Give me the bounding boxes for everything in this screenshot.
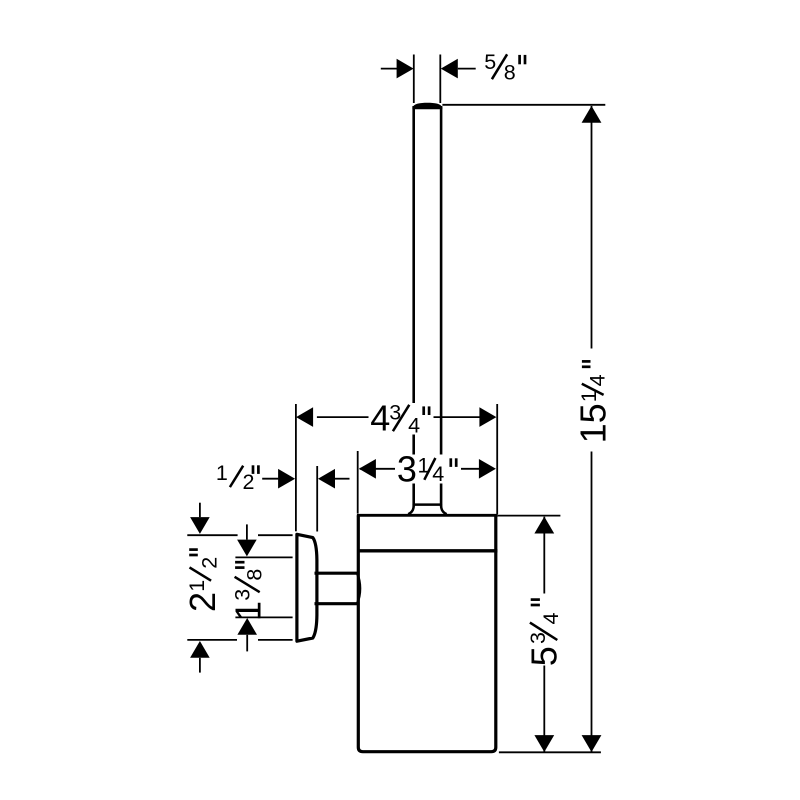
svg-text:5: 5 (484, 50, 496, 74)
svg-text:4: 4 (586, 374, 610, 386)
svg-text:5: 5 (523, 646, 564, 666)
svg-text:1: 1 (216, 461, 228, 485)
svg-text:1: 1 (573, 423, 614, 443)
svg-text:1: 1 (185, 580, 209, 592)
svg-text:3: 3 (397, 449, 417, 490)
svg-text:8: 8 (243, 569, 267, 581)
svg-text:3: 3 (230, 589, 254, 601)
svg-text:4: 4 (408, 413, 420, 437)
svg-text:2: 2 (182, 592, 223, 612)
svg-text:4: 4 (370, 397, 390, 438)
svg-text:5: 5 (573, 403, 614, 423)
svg-text:2: 2 (198, 557, 222, 569)
svg-text:8: 8 (504, 61, 516, 85)
svg-text:4: 4 (432, 462, 444, 486)
svg-text:4: 4 (539, 613, 563, 625)
svg-text:1: 1 (227, 601, 268, 621)
